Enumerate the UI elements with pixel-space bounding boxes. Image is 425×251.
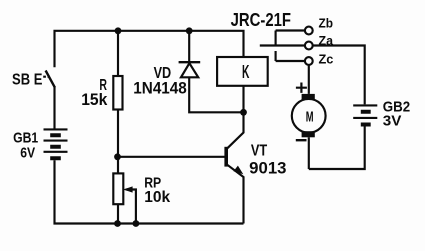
svg-text:9013: 9013 (249, 160, 286, 178)
svg-text:3V: 3V (383, 112, 402, 129)
svg-text:Zb: Zb (319, 15, 334, 30)
svg-text:M: M (306, 108, 314, 125)
svg-text:10k: 10k (144, 189, 170, 206)
svg-text:1N4148: 1N4148 (133, 80, 187, 98)
svg-text:15k: 15k (81, 91, 108, 109)
svg-text:SB E: SB E (12, 72, 43, 89)
svg-text:6V: 6V (20, 144, 35, 161)
svg-text:Zc: Zc (319, 52, 334, 67)
svg-text:K: K (242, 62, 249, 82)
svg-text:Za: Za (319, 33, 334, 48)
svg-text:JRC-21F: JRC-21F (231, 9, 291, 30)
svg-text:VT: VT (251, 143, 267, 160)
